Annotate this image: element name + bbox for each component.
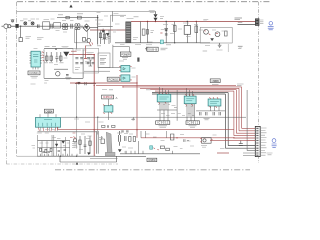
resistor R9012 <box>225 31 228 36</box>
label box IC9510 <box>102 95 114 99</box>
subcircuit box pfc <box>110 15 126 43</box>
capacitor C9515 <box>107 125 108 128</box>
value label caps <box>204 118 210 120</box>
svg-text:CN9505: CN9505 <box>211 79 219 83</box>
wire bypass line <box>57 17 98 19</box>
pin marks gray CN9504 <box>41 128 58 131</box>
component box below <box>19 38 22 42</box>
capacitor C9603 <box>66 75 69 76</box>
wire AC line <box>19 25 83 27</box>
wire bottom mid bus <box>120 153 200 155</box>
value label caps stby <box>86 53 94 55</box>
connector CN9902 <box>255 126 260 156</box>
svg-text:IC9512: IC9512 <box>187 121 199 125</box>
diode D9003 <box>106 33 109 35</box>
AC plug P1 <box>2 24 16 28</box>
capacitor C9601 <box>55 52 58 62</box>
wire cap c9011 <box>186 22 188 43</box>
transistor Q9705 <box>73 139 76 142</box>
wire gray pin11 <box>243 153 255 156</box>
capacitor C9706 <box>58 150 60 151</box>
wire drop L <box>20 26 22 37</box>
wire ic9511 aux <box>165 131 167 138</box>
value labels top mid extra <box>97 13 125 25</box>
transistor Q9010 <box>204 29 209 34</box>
value label under POWER <box>122 58 128 60</box>
value labels x118-138 <box>117 133 133 152</box>
resistor R9620 <box>100 59 106 61</box>
resistor R9601 <box>46 52 48 62</box>
diode stack D9004 <box>154 11 157 21</box>
pin marks red IC9701 <box>153 148 159 150</box>
transformer T9904 <box>126 22 131 43</box>
wire secondary mid bus <box>38 147 71 149</box>
resistor R9720 <box>129 137 131 142</box>
label box IC9514 <box>210 79 220 83</box>
pin marks red PC9601 <box>119 67 132 71</box>
value labels cluster <box>85 62 90 64</box>
label box B9501 <box>147 47 158 51</box>
wire red bus 5 <box>155 91 255 136</box>
resistor R9721 <box>133 137 135 142</box>
wire power drop <box>113 45 129 68</box>
choke L9002 <box>75 24 80 30</box>
wire standby box <box>44 49 83 78</box>
pin marks red IC9601 <box>42 52 45 62</box>
startup resistor R9031 <box>103 30 105 44</box>
svg-text:SUB-B: SUB-B <box>148 48 157 52</box>
wire CN9504 to rectifier bus <box>38 131 97 133</box>
wire reg drop <box>98 99 109 135</box>
value label +2 <box>203 50 208 52</box>
value label t9904 right <box>133 38 138 40</box>
components left of heatsink <box>79 136 91 154</box>
opto PC9602 <box>121 75 130 81</box>
subcircuit box standby aux <box>98 53 110 68</box>
diode D9603 <box>78 82 81 84</box>
label box IC9530 <box>147 158 157 162</box>
wire red bus 2 <box>123 87 255 128</box>
capacitor C9002 <box>51 24 52 29</box>
pin marks red PC9602 <box>119 76 132 80</box>
svg-text:POWER: POWER <box>121 53 130 57</box>
wire red stub right <box>217 152 229 154</box>
wire zener branch <box>165 22 167 43</box>
capacitor C9705 <box>48 151 50 152</box>
resistor R9730 <box>160 146 164 149</box>
junction dots dark <box>20 17 188 157</box>
wire red feedback <box>70 75 137 138</box>
junction parts near bundle <box>239 141 243 146</box>
value label right edge <box>267 153 273 155</box>
resistor R9701 <box>40 148 42 151</box>
wire bb return <box>238 24 256 26</box>
wire black bus 7 <box>152 94 255 148</box>
pin mark red <box>160 32 162 34</box>
regulator IC9510 <box>104 106 113 112</box>
value label under IC9601 <box>30 77 37 78</box>
resistor R9602 <box>50 52 52 62</box>
value labels bottom extra <box>99 134 225 149</box>
node bb label <box>238 21 243 23</box>
transistor Q9001 <box>87 38 91 42</box>
transistor Q9602 <box>137 58 139 62</box>
wire red pin5 <box>234 137 255 139</box>
value label mid <box>65 78 71 79</box>
pin mark red Q9701 <box>74 137 76 140</box>
line filter box LF9002 <box>54 23 61 28</box>
pin ticks under IC9601 <box>33 67 38 69</box>
capacitor C9530 <box>200 112 202 115</box>
value labels rect cluster <box>32 138 70 149</box>
pin marks red Q9010 <box>204 31 210 35</box>
wire IC9511 out row <box>157 109 177 111</box>
wire link to CN <box>61 116 141 118</box>
capacitor C9734 <box>184 139 189 142</box>
wire aux bottom2 <box>84 70 110 72</box>
resistor R9515 <box>102 125 105 127</box>
resistor R9723 <box>126 131 129 132</box>
capacitor C9720 <box>119 131 121 146</box>
wire CN9504 stub <box>47 114 49 118</box>
capacitor C9604 <box>85 82 86 85</box>
zone marker triangle top <box>70 5 73 7</box>
wire red bus 3 <box>140 88 255 131</box>
wire red 3.3V <box>141 137 234 139</box>
node +B label <box>235 18 243 19</box>
capacitor C9626 <box>75 62 78 63</box>
label box IC9601 <box>28 71 40 75</box>
zener D9005 <box>165 29 168 31</box>
pin marks red IC9512 <box>186 94 195 105</box>
wire stby drop <box>76 84 78 149</box>
pin marks red PC9730 <box>200 139 213 142</box>
pin number text IC9512 <box>186 106 193 108</box>
wire red bus 1 <box>96 84 236 86</box>
wire secondary stby <box>75 83 96 85</box>
capacitor C9516 <box>132 117 135 120</box>
diode D9705 <box>88 153 91 155</box>
opto PC9730 <box>202 138 212 144</box>
junction dots red <box>76 54 235 139</box>
regulator IC9512 <box>184 96 196 104</box>
capacitor C9704 <box>43 151 45 152</box>
capacitor C9627 <box>80 62 83 63</box>
label box IC9512 <box>186 121 199 125</box>
startup cap C9030 <box>108 30 111 44</box>
wire IC9511 pins <box>160 87 169 121</box>
capacitor C9102 <box>145 47 150 51</box>
wire drop x138 <box>138 141 140 154</box>
wire +B rail <box>131 21 255 23</box>
diode D9702 <box>62 141 65 143</box>
wire q9702 drains <box>96 131 98 154</box>
connector CN9504 <box>35 118 60 128</box>
wire red bus 4 <box>150 90 255 134</box>
capacitor C9533 <box>219 112 221 115</box>
resistor R9702 <box>45 149 47 152</box>
label box POWER <box>120 52 131 57</box>
capacitor C9622 <box>87 62 90 63</box>
hyperlink icon blue top right <box>268 22 274 30</box>
subcircuit box standby transformer <box>73 48 99 73</box>
transistor Q9011 <box>215 32 220 37</box>
pin marks red IC9510 <box>103 105 112 114</box>
value label right of box <box>161 48 168 50</box>
resistor R9731 <box>166 148 170 150</box>
IC9601 standby controller <box>30 51 42 67</box>
svg-text:IC9601: IC9601 <box>29 71 39 75</box>
capacitor C9707 <box>64 149 66 150</box>
pin number text IC9511 <box>158 104 170 106</box>
resistor R9007 <box>195 22 198 43</box>
opto PC9601 <box>121 66 130 72</box>
wire primary ground rail <box>115 42 210 44</box>
wire sub12 <box>227 44 229 52</box>
wire standby mid <box>54 68 68 70</box>
highlight part cyan small <box>160 40 163 44</box>
line filter box LF9001 <box>43 22 50 29</box>
wire return L <box>60 156 117 162</box>
rectifier cluster verticals <box>38 135 70 156</box>
value labels standby <box>62 47 69 49</box>
hyperlink icon blue bottom right <box>272 139 277 148</box>
pin mark red bottom left <box>70 133 76 138</box>
ground snubber <box>218 43 222 48</box>
value label IC9511 <box>159 126 168 127</box>
wire gray drop x247 <box>247 90 255 151</box>
wire red startup <box>84 46 87 59</box>
svg-text:PC9602: PC9602 <box>108 77 118 81</box>
connector junction box <box>16 24 19 27</box>
highlight part cyan IC9701 <box>150 146 153 149</box>
value label CN9505 <box>212 84 219 86</box>
value label PC9730 <box>201 146 207 148</box>
wire IC9512 extra pins <box>189 104 193 117</box>
heatsink base <box>105 152 115 156</box>
label box CN9504 <box>44 109 53 113</box>
wire IC9512 pins <box>187 88 195 120</box>
zone triangle bottom <box>76 163 78 165</box>
capacitor C9624 <box>75 57 78 58</box>
pin labels CN9901 <box>260 20 263 24</box>
wire red d9601 stub <box>71 50 77 52</box>
resistor R9001 <box>66 16 69 18</box>
resistor R9008 <box>147 22 149 43</box>
thermistor TH9001 <box>83 38 86 42</box>
wire mid vertical <box>176 90 178 121</box>
wire 5VSTBY red <box>69 55 94 156</box>
transistor Q9702 <box>101 136 104 144</box>
value labels AC extra <box>20 19 74 32</box>
wire red aux rail <box>58 127 234 130</box>
capacitor C9001 <box>38 24 39 28</box>
junction dots +B rail <box>147 21 197 22</box>
part on red wire D9730 <box>171 134 174 140</box>
transistor Q9601 <box>56 72 60 76</box>
bridge rectifier D9001 <box>83 24 90 31</box>
startup resistor R9030 <box>99 30 101 44</box>
value label R9008 <box>151 31 155 33</box>
box standby outline left <box>43 49 45 78</box>
resistor R9703 <box>50 148 52 151</box>
wire red pin6b <box>210 139 247 141</box>
value labels mid bottom <box>74 139 91 150</box>
diode D9720 <box>118 150 121 152</box>
capacitor C9620 <box>87 57 90 58</box>
capacitor C9010 <box>165 34 168 35</box>
pin labels CN9902 <box>261 128 267 155</box>
diode D9012 <box>211 39 214 41</box>
label box IC9511 <box>156 121 170 125</box>
value label D9004b <box>160 17 164 19</box>
wire return upper <box>90 157 118 159</box>
junction dot aux rail <box>94 129 138 130</box>
choke L9001 <box>62 24 68 30</box>
resistor R9516 <box>112 125 115 127</box>
wire red pin6 <box>247 139 255 141</box>
wire black L mid <box>141 116 247 118</box>
resistor R9621 <box>100 63 106 65</box>
wire standby top <box>44 47 73 49</box>
label box PC9601 <box>107 77 119 81</box>
capacitor C9625 <box>80 57 83 58</box>
wire pfc sense <box>140 22 142 43</box>
value label t9601 <box>75 49 87 51</box>
value label near R9731 <box>174 147 183 149</box>
capacitor C9011 big <box>184 26 190 35</box>
snubber cluster box <box>200 27 232 43</box>
resistor R9603 <box>60 52 62 62</box>
pin ticks bottom <box>41 153 78 156</box>
value labels AC input area <box>11 11 243 50</box>
pin text 12 <box>238 47 243 49</box>
connector CN9901 top <box>255 19 259 26</box>
diode D9601 <box>64 52 69 56</box>
wire startup bus <box>98 26 113 28</box>
pin marks red IC9511 <box>159 93 168 104</box>
regulator IC9511 <box>157 94 171 102</box>
varistor VZ9001 <box>24 22 27 25</box>
capacitor C9532 <box>213 112 215 115</box>
node bus1 label <box>237 84 244 86</box>
wire IC9511 extra pins <box>162 102 166 110</box>
wire pfc drop <box>112 11 114 21</box>
junction dot y116 <box>76 117 99 118</box>
wire bridge top <box>97 15 99 45</box>
capacitor C9531 <box>206 112 208 115</box>
resistor R9722 <box>121 131 124 132</box>
regulator IC9513 <box>208 99 221 106</box>
small parts cluster x88 <box>89 58 93 66</box>
value label C9102 <box>146 44 152 46</box>
resistor R9006 <box>173 22 176 43</box>
value labels PFC extra <box>97 24 125 45</box>
capacitor C9623 <box>92 62 95 63</box>
pin marks red IC9513 <box>210 97 219 108</box>
value label aux box <box>100 55 108 57</box>
wire black bus 6 <box>152 93 255 146</box>
wire top rail <box>17 10 156 12</box>
diode D9002 <box>102 29 105 33</box>
wire secondary top bus <box>38 140 71 142</box>
wire vertical x76 <box>76 28 78 49</box>
wire aux bottom <box>98 67 121 69</box>
wire secondary bottom bus <box>17 155 37 157</box>
relay RY9001 <box>77 16 81 19</box>
value labels bottom left cluster <box>72 134 92 148</box>
svg-text:A: A <box>116 96 118 100</box>
capacitor C9721 <box>125 136 126 141</box>
svg-text:IC9530: IC9530 <box>148 159 156 162</box>
resistor R9005 <box>142 29 145 35</box>
wire branch x145 <box>141 131 146 138</box>
fuse F9001 <box>11 20 13 22</box>
node 5V label <box>37 132 49 134</box>
wire CN9504 top stubs <box>40 114 56 117</box>
capacitor C9003 <box>71 24 72 29</box>
wire bridge out <box>90 27 98 29</box>
varistor VZ9002 <box>31 22 34 25</box>
pin ticks mid <box>126 151 173 154</box>
capacitor C9621 <box>92 57 95 58</box>
wire IC9513 out <box>196 106 225 111</box>
value labels standby area <box>31 46 197 130</box>
svg-text:IC9511: IC9511 <box>157 121 169 125</box>
pin mark red Q9001 <box>89 42 93 45</box>
pin mark red Q9011 <box>216 33 218 35</box>
diode D9701 <box>55 144 58 146</box>
wire rectified line <box>90 29 126 31</box>
svg-text:IC9510: IC9510 <box>103 95 113 99</box>
svg-text:CN9504: CN9504 <box>45 109 53 113</box>
subcircuit box <box>75 28 88 43</box>
pin marks red CN9504 <box>39 128 56 131</box>
heatsink HS9701 <box>106 132 112 154</box>
value label inside box2 <box>75 68 80 70</box>
